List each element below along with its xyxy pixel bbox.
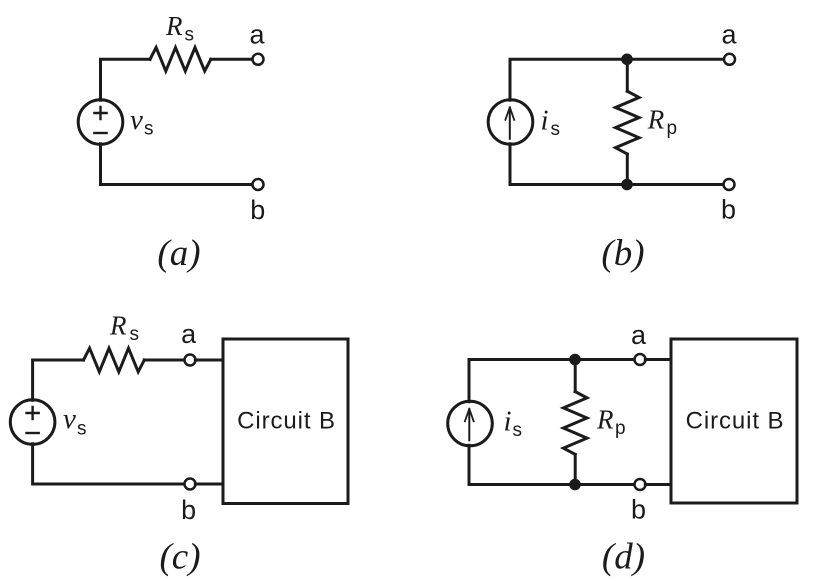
svg-text:s: s [144,119,154,140]
wire terminal a to Circuit B box of circuit (c) [195,359,223,362]
wire from Rs to terminal a of circuit (c) [144,359,184,362]
Circuit B box of circuit (d) [671,339,797,503]
wire top-left of circuit (c) [33,360,84,400]
wire from resistor Rp to bottom junction of circuit (b) [626,154,629,185]
svg-text:s: s [513,420,523,441]
svg-text:i: i [541,105,549,137]
junction dot bottom of circuit (d) [569,479,581,491]
svg-text:b: b [721,195,736,225]
svg-text:s: s [77,419,87,440]
svg-text:R: R [109,311,127,341]
wire from top junction to resistor Rp of circuit (b) [626,59,629,91]
svg-text:p: p [615,418,626,439]
svg-text:(c): (c) [159,537,200,578]
svg-text:(a): (a) [157,233,200,274]
svg-text:b: b [631,495,646,525]
svg-text:p: p [667,118,678,139]
junction dot top of circuit (d) [569,354,581,366]
wire top-left of circuit (a) [101,59,151,100]
svg-text:s: s [551,119,561,140]
wire bottom of circuit (a) [101,144,253,185]
svg-text:b: b [181,495,196,525]
resistor Rp of circuit (d) [563,392,587,455]
svg-text:a: a [631,320,647,350]
wire top of circuit (b) [510,59,724,100]
svg-text:(d): (d) [602,537,645,578]
current source is of circuit (b) [488,100,533,145]
svg-text:R: R [165,11,183,41]
svg-text:a: a [249,19,265,49]
svg-text:a: a [181,319,197,349]
resistor Rp of circuit (b) [616,91,640,154]
svg-text:Circuit B: Circuit B [237,408,336,435]
wire terminal b to Circuit B box of circuit (d) [645,483,671,486]
terminal a of circuit (d) [635,354,646,365]
terminal b of circuit (a) [253,179,264,190]
junction dot top of circuit (b) [621,54,633,66]
svg-text:a: a [721,19,737,49]
svg-text:b: b [250,195,265,225]
Circuit B box of circuit (c) [223,339,348,504]
wire top of circuit (d) [469,360,635,402]
wire bottom of circuit (d) [469,445,635,484]
wire from Rs to terminal a of circuit (a) [211,58,253,61]
svg-text:R: R [596,404,614,434]
svg-text:s: s [130,324,140,345]
svg-text:Circuit B: Circuit B [686,408,785,435]
svg-text:R: R [647,104,665,134]
svg-text:s: s [185,25,195,46]
svg-text:v: v [63,403,76,435]
wire terminal a to Circuit B box of circuit (d) [645,358,671,361]
wire bottom of circuit (c) [33,444,185,484]
terminal b of circuit (c) [185,479,196,490]
resistor Rs of circuit (a) [150,48,211,72]
terminal a of circuit (b) [724,54,735,65]
svg-text:v: v [130,104,143,136]
wire from resistor Rp to bottom junction of circuit (d) [574,454,577,484]
terminal b of circuit (d) [635,479,646,490]
terminal a of circuit (c) [185,355,196,366]
terminal a of circuit (a) [253,54,264,65]
wire terminal b to Circuit B box of circuit (c) [195,483,223,486]
terminal b of circuit (b) [724,179,735,190]
wire from top junction to resistor Rp of circuit (d) [574,360,577,392]
svg-text:(b): (b) [601,233,644,274]
current source is of circuit (d) [448,401,493,446]
svg-text:i: i [504,406,512,438]
voltage source vs of circuit (c) [10,400,55,445]
wire bottom of circuit (b) [510,144,724,185]
junction dot bottom of circuit (b) [621,179,633,191]
voltage source vs of circuit (a) [78,100,123,145]
resistor Rs of circuit (c) [84,348,145,372]
